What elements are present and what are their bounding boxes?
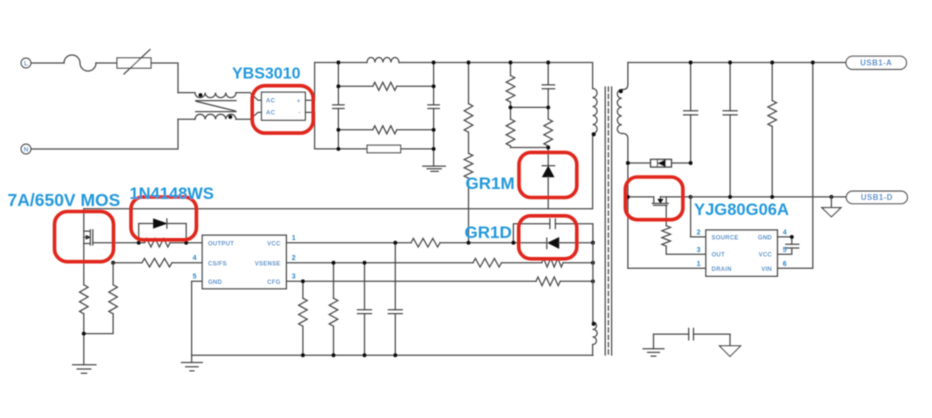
svg-text:GND: GND xyxy=(758,235,773,241)
svg-text:+: + xyxy=(297,99,301,105)
transformer T1 primary winding xyxy=(593,89,598,134)
svg-text:N: N xyxy=(24,146,29,153)
annotation box 1N4148WS xyxy=(131,197,196,240)
resistor gate parallel xyxy=(145,238,171,247)
resistor below VSENSE xyxy=(333,263,335,299)
capacitor below VSENSE xyxy=(364,263,366,356)
diode boxed schottky xyxy=(628,162,691,164)
svg-text:GR1D: GR1D xyxy=(465,223,512,242)
svg-text:USB1-A: USB1-A xyxy=(860,58,892,67)
svg-text:AC: AC xyxy=(266,99,276,105)
svg-text:4: 4 xyxy=(193,255,197,262)
transformer T1 core xyxy=(604,87,606,355)
svg-text:3: 3 xyxy=(697,247,701,254)
choke bottom phase dot xyxy=(228,115,232,119)
annotation box GR1M xyxy=(519,152,577,197)
wire snubber RC bottom xyxy=(654,333,731,335)
varistor RV1 xyxy=(117,58,151,68)
diode GR1M snubber clamp xyxy=(542,165,554,167)
wire aux vertical xyxy=(592,243,594,322)
wire HV top bus xyxy=(315,62,367,64)
op-amp U1 primary controller IC xyxy=(202,235,286,289)
wire fuse to varistor xyxy=(96,62,117,64)
terminal USB1-D xyxy=(846,191,907,204)
svg-text:AC: AC xyxy=(266,111,276,117)
svg-text:1: 1 xyxy=(697,261,701,268)
resistor below CFG xyxy=(302,281,304,298)
svg-text:YJG80G06A: YJG80G06A xyxy=(694,200,789,219)
ground under sense resistors xyxy=(73,365,96,373)
wire USB1-D row xyxy=(691,196,847,198)
svg-text:GND: GND xyxy=(208,280,223,286)
svg-text:3: 3 xyxy=(292,274,296,281)
svg-text:USB1-D: USB1-D xyxy=(861,193,893,202)
bleeder resistor upper xyxy=(338,85,372,87)
svg-text:OUTPUT: OUTPUT xyxy=(208,241,234,247)
diode GR1D xyxy=(546,238,548,249)
svg-text:5: 5 xyxy=(193,274,197,281)
bridge rectifier BR1 xyxy=(262,92,306,120)
svg-text:SOURCE: SOURCE xyxy=(712,235,739,241)
choke top phase dot xyxy=(199,93,203,97)
wire bottom bus xyxy=(192,354,593,356)
transistor Q2 sync rectifier MOSFET xyxy=(628,197,654,204)
ground earth triangle right xyxy=(729,334,731,346)
choke core xyxy=(196,100,236,102)
svg-text:L: L xyxy=(24,60,28,67)
svg-text:1: 1 xyxy=(292,235,296,242)
svg-text:DRAIN: DRAIN xyxy=(712,267,732,273)
common-mode choke L1 bottom winding xyxy=(178,118,195,120)
capacitor output 1 xyxy=(690,63,692,163)
annotation box YBS3010 xyxy=(252,86,313,133)
wire drain row xyxy=(84,134,593,209)
op-amp U2 sync rectifier controller IC xyxy=(706,230,778,276)
svg-text:VIN: VIN xyxy=(761,267,772,273)
capacitor output 2 xyxy=(729,63,731,197)
resistor VCC series xyxy=(411,238,440,247)
resistor sense B xyxy=(112,263,114,285)
transistor Q1 7A/650V MOSFET xyxy=(83,209,85,285)
transformer T1 aux winding xyxy=(593,322,598,345)
wire GND pin to bus xyxy=(192,281,203,355)
junction dots pi filter xyxy=(336,61,340,65)
resistor CS filter xyxy=(142,258,172,267)
wire gate row xyxy=(93,242,145,244)
capacitor VCC bypass U2 xyxy=(777,237,791,254)
snubber cap branch xyxy=(547,63,549,108)
resistor sense A xyxy=(80,285,89,314)
wire bus after inductor xyxy=(399,63,593,89)
wire bridge plus output xyxy=(305,63,314,101)
ground chassis left xyxy=(653,334,655,349)
fuse F1 xyxy=(64,55,96,71)
ground earth triangle USB xyxy=(830,197,832,208)
ground IC1 xyxy=(191,355,193,362)
wire VSENSE row xyxy=(286,262,473,264)
svg-text:7A/650V MOS: 7A/650V MOS xyxy=(8,190,121,210)
svg-text:OUT: OUT xyxy=(712,253,726,259)
wire varistor to choke xyxy=(151,63,178,93)
startup resistor chain xyxy=(468,63,470,104)
wire bridge minus output xyxy=(305,112,314,148)
transformer T1 secondary winding xyxy=(622,63,628,90)
wire N to choke xyxy=(31,119,178,149)
svg-text:CFG: CFG xyxy=(267,280,280,286)
primary ground xyxy=(433,149,435,166)
diode 1N4148WS loop xyxy=(139,224,187,243)
svg-text:GR1M: GR1M xyxy=(466,174,515,193)
capacitor VCC xyxy=(394,243,396,356)
svg-text:2: 2 xyxy=(697,230,701,237)
terminal L xyxy=(21,58,31,68)
svg-text:4: 4 xyxy=(783,230,787,237)
capacitor GR1D parallel bypass xyxy=(513,224,593,243)
annotation box Q2 xyxy=(625,177,683,220)
common-mode choke L1 top winding xyxy=(178,92,195,94)
svg-text:2: 2 xyxy=(292,255,296,262)
capacitor Y-cap xyxy=(689,328,694,340)
terminal N xyxy=(21,144,31,154)
wire DRAIN row xyxy=(628,267,706,269)
resistor output load xyxy=(771,63,773,101)
wire secondary top bus xyxy=(628,62,846,64)
resistor Q2 source xyxy=(665,205,667,225)
wire CS/FS row xyxy=(113,262,142,264)
svg-text:-: - xyxy=(298,111,300,117)
bulk cap branch 1 xyxy=(337,63,339,149)
svg-text:1N4148WS: 1N4148WS xyxy=(130,185,214,203)
resistor VSENSE series 2 xyxy=(542,258,563,267)
svg-text:VCC: VCC xyxy=(267,241,281,247)
wire VIN branch xyxy=(777,63,812,269)
svg-text:YBS3010: YBS3010 xyxy=(232,66,301,83)
wire CFG row xyxy=(286,280,536,282)
svg-text:6: 6 xyxy=(783,261,787,268)
svg-text:VCC: VCC xyxy=(759,253,773,259)
svg-text:VSENSE: VSENSE xyxy=(255,261,281,267)
snubber resistor branch xyxy=(510,63,512,76)
resistor VSENSE series 1 xyxy=(473,258,502,267)
wire VCC row xyxy=(286,242,411,244)
annotation box GR1D xyxy=(519,216,577,259)
wire SOURCE branch xyxy=(691,197,706,237)
inductor filter choke on bus xyxy=(367,58,399,63)
bleeder resistor lower xyxy=(338,129,372,131)
svg-text:CS/FS: CS/FS xyxy=(208,261,227,267)
terminal USB1-A xyxy=(846,56,907,69)
bulk cap branch 2 xyxy=(433,63,435,149)
wire bridge minus rail xyxy=(315,148,368,150)
resistor CFG series xyxy=(536,277,560,286)
resistor fusible (box) on minus rail xyxy=(367,145,401,153)
wire L input xyxy=(31,62,64,64)
annotation box MOSFET xyxy=(55,212,114,262)
